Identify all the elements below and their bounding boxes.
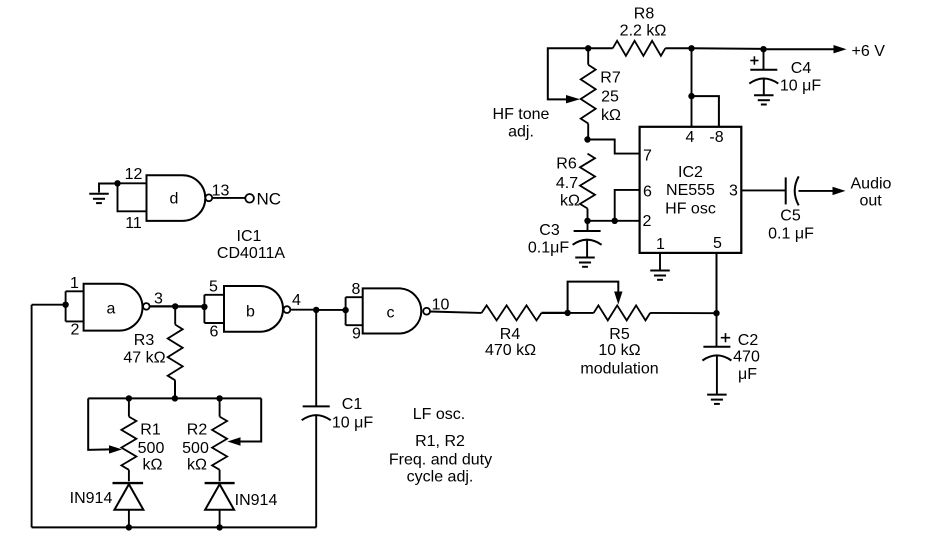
svg-text:2: 2 <box>643 213 652 230</box>
svg-text:NC: NC <box>257 190 282 209</box>
label 4.7 <box>556 175 578 192</box>
NAND gate d (IC1) <box>147 175 206 221</box>
svg-text:C5: C5 <box>780 208 801 225</box>
label 470 k&#937; <box>485 342 536 359</box>
wire node E to C3 <box>587 221 589 231</box>
label R2 <box>187 422 208 439</box>
label NC <box>257 190 282 209</box>
label 25 <box>601 89 619 106</box>
label R5 <box>609 326 630 343</box>
svg-text:modulation: modulation <box>580 361 658 378</box>
pin label 3 (IC2) <box>729 183 738 200</box>
wire node to R5 <box>568 312 594 314</box>
wire C2 to ground <box>716 356 718 395</box>
label IN914 (D1) <box>70 490 113 507</box>
wire node 3 down to R3 <box>174 306 176 324</box>
wire R7 to node D <box>587 124 589 140</box>
input bracket gate c <box>346 297 363 325</box>
pin label 5 (IC2) <box>713 235 722 252</box>
potentiometer R5 <box>594 305 651 320</box>
label 470 (C2) <box>733 349 760 366</box>
svg-text:μF: μF <box>738 366 757 383</box>
ground below C3 <box>575 258 595 267</box>
IC2 NE555 box <box>640 127 742 253</box>
svg-text:Freq. and duty: Freq. and duty <box>389 452 492 469</box>
svg-text:R2: R2 <box>187 422 208 439</box>
label 500 (R1) <box>138 440 165 457</box>
svg-text:+6 V: +6 V <box>852 43 886 60</box>
svg-text:10 kΩ: 10 kΩ <box>598 342 640 359</box>
label CD4011A <box>217 245 286 262</box>
svg-text:0.1 μF: 0.1 μF <box>768 226 814 243</box>
svg-text:cycle adj.: cycle adj. <box>407 469 474 486</box>
svg-text:47 kΩ: 47 kΩ <box>123 350 165 367</box>
wire pin 1 to ground <box>659 253 661 270</box>
wire C3 to ground <box>586 240 588 257</box>
LF top rail <box>88 397 261 399</box>
pin label 1 <box>70 275 79 292</box>
output bubble gate b <box>284 306 291 313</box>
svg-text:IN914: IN914 <box>235 492 278 509</box>
label C1 <box>342 396 363 413</box>
svg-text:R7: R7 <box>600 70 621 87</box>
label &#956;F (C2) <box>738 366 757 383</box>
svg-text:HF tone: HF tone <box>493 106 550 123</box>
svg-text:2: 2 <box>71 322 80 339</box>
svg-text:500: 500 <box>182 440 209 457</box>
ground below C4 <box>754 95 774 104</box>
potentiometer R1 <box>121 417 136 470</box>
svg-text:C1: C1 <box>342 396 363 413</box>
pin label 2 <box>71 322 80 339</box>
svg-text:C3: C3 <box>539 222 560 239</box>
wire node 4 to gate c bracket <box>316 309 345 311</box>
capacitor C5 <box>786 176 799 205</box>
pin label 3 <box>154 291 163 308</box>
capacitor C2 <box>702 347 731 361</box>
pin label 5 <box>209 279 218 296</box>
R7 wiper bracket <box>548 48 588 103</box>
NAND gate c (IC1) <box>363 288 422 333</box>
svg-text:IN914: IN914 <box>70 490 113 507</box>
wire node to C2 <box>716 313 718 347</box>
pin label 9 <box>352 326 361 343</box>
ground at gate d input <box>89 194 109 203</box>
svg-text:7: 7 <box>643 148 652 165</box>
wire node A to R8 <box>588 47 613 49</box>
node gate c input junction <box>342 307 348 313</box>
ground below pin 1 <box>650 271 670 280</box>
label HF tone <box>493 106 550 123</box>
node R3 bottom <box>172 395 178 401</box>
svg-text:5: 5 <box>209 279 218 296</box>
NAND gate b (IC1) <box>224 286 283 332</box>
pin label 4 <box>292 292 301 309</box>
label Audio <box>851 175 892 192</box>
wire node 3 to gate b bracket <box>175 305 204 307</box>
svg-text:6: 6 <box>643 184 652 201</box>
label k&#937; (R6) <box>560 193 580 210</box>
diode D2 IN914 <box>205 483 235 510</box>
wire D2 to bottom rail <box>219 510 221 528</box>
label R4 <box>500 326 521 343</box>
label Freq. and duty <box>389 452 492 469</box>
svg-text:out: out <box>860 192 883 209</box>
capacitor C3 <box>573 231 602 245</box>
svg-text:4: 4 <box>686 129 695 146</box>
node 3 junction (R3 top) <box>172 303 178 309</box>
wire to ground from gate d inputs <box>99 184 118 193</box>
svg-text:470 kΩ: 470 kΩ <box>485 342 536 359</box>
pin label 10 <box>432 297 450 314</box>
svg-text:500: 500 <box>138 440 165 457</box>
svg-text:3: 3 <box>154 291 163 308</box>
wire gate d output to NC <box>212 197 245 199</box>
label R8 <box>634 6 655 23</box>
wire pin 6 path <box>615 190 640 221</box>
label 10 k&#937; <box>598 342 640 359</box>
wire R7 top stub <box>587 48 589 64</box>
wire D1 to bottom rail <box>128 510 130 528</box>
R5 wiper bracket <box>568 282 623 313</box>
resistor R6 <box>580 154 595 209</box>
ground below C2 <box>707 395 727 404</box>
wire R1 stub <box>128 398 130 416</box>
pin label 2 (IC2) <box>643 213 652 230</box>
svg-text:10 μF: 10 μF <box>780 78 821 95</box>
label 0.1&#956;F (C3) <box>528 240 569 257</box>
svg-text:5: 5 <box>713 235 722 252</box>
svg-text:3: 3 <box>729 183 738 200</box>
svg-text:2.2 kΩ: 2.2 kΩ <box>620 23 667 40</box>
node gate b input junction <box>201 304 207 310</box>
svg-text:IC2: IC2 <box>678 164 703 181</box>
input bracket gate a <box>66 291 84 321</box>
wire pin 3 to C5 <box>741 189 785 191</box>
pin label 1 (IC2) <box>656 236 665 253</box>
label C5 <box>780 208 801 225</box>
left vertical rail <box>31 305 33 528</box>
label 0.1 &#956;F (C5) <box>768 226 814 243</box>
wire node to C4 <box>763 49 765 70</box>
wire node B to node C4 <box>692 47 764 50</box>
capacitor C4 <box>749 70 778 84</box>
node C4 top <box>760 46 766 52</box>
svg-text:8: 8 <box>352 281 361 298</box>
wire pin 12 input to gate d <box>118 182 147 184</box>
label IN914 (D2) <box>235 492 278 509</box>
open terminal NC <box>245 194 254 203</box>
output bubble gate c <box>423 308 430 315</box>
svg-text:kΩ: kΩ <box>601 107 621 124</box>
svg-text:NE555: NE555 <box>666 182 715 199</box>
svg-text:kΩ: kΩ <box>560 193 580 210</box>
svg-text:a: a <box>107 301 116 318</box>
svg-text:R4: R4 <box>500 326 521 343</box>
svg-text:25: 25 <box>601 89 619 106</box>
R1 wiper bracket <box>88 398 122 453</box>
wire R6 to node E <box>587 209 589 221</box>
potentiometer R7 <box>581 65 596 124</box>
pin label 4 (IC2) <box>686 129 695 146</box>
svg-text:470: 470 <box>733 349 760 366</box>
wire gate c output to R4 <box>430 312 482 313</box>
wire R1 to D1 <box>128 470 130 482</box>
node B (pins 4-8 feed) <box>688 45 694 51</box>
svg-text:LF osc.: LF osc. <box>413 406 465 423</box>
node A (R7 top) <box>585 45 591 51</box>
label C3 <box>539 222 560 239</box>
wire pin 2 path <box>588 220 640 222</box>
label 10 &#956;F (C4) <box>780 78 821 95</box>
label R1, R2 <box>415 433 465 450</box>
capacitor C1 <box>302 406 331 420</box>
wire left rail from gate a input <box>32 304 66 306</box>
input bracket gate b <box>204 295 224 323</box>
audio out arrow <box>833 187 846 195</box>
pin label 6 <box>210 324 219 341</box>
node R1 top <box>126 395 132 401</box>
label R7 <box>600 70 621 87</box>
node D (R7/R6/pin7) <box>584 136 590 142</box>
svg-text:10 μF: 10 μF <box>332 415 373 432</box>
label adj. <box>508 124 534 141</box>
label C4 <box>791 60 812 77</box>
wire R2 stub <box>219 398 221 416</box>
label cycle adj. <box>407 469 474 486</box>
svg-text:12: 12 <box>125 166 143 183</box>
svg-text:Audio: Audio <box>851 175 892 192</box>
svg-text:-8: -8 <box>709 129 723 146</box>
node D1 bottom <box>126 524 132 530</box>
node 4 junction (C1 top) <box>313 307 319 313</box>
svg-text:R3: R3 <box>134 332 155 349</box>
svg-text:R5: R5 <box>609 326 630 343</box>
potentiometer R2 <box>212 417 227 470</box>
node gate a input junction <box>62 302 68 308</box>
svg-text:R6: R6 <box>556 156 577 173</box>
plus sign C4 <box>750 56 758 64</box>
wire R8 to node B <box>665 47 691 49</box>
wire R2 to D2 <box>219 470 221 482</box>
svg-text:IC1: IC1 <box>237 228 262 245</box>
svg-text:C4: C4 <box>791 60 812 77</box>
svg-text:R8: R8 <box>634 6 655 23</box>
svg-text:R1, R2: R1, R2 <box>415 433 465 450</box>
svg-text:4.7: 4.7 <box>556 175 578 192</box>
svg-text:R1: R1 <box>140 422 161 439</box>
svg-text:CD4011A: CD4011A <box>217 245 286 262</box>
svg-text:d: d <box>170 191 179 208</box>
label k&#937; (R2) <box>187 457 207 474</box>
label 10 &#956;F (C1) <box>332 415 373 432</box>
svg-text:0.1μF: 0.1μF <box>528 240 569 257</box>
wire C5 to arrow <box>799 190 834 192</box>
node R4/R5 junction <box>564 310 570 316</box>
node E (R6/C3/pin2) <box>584 218 590 224</box>
label k&#937; (R1) <box>143 457 163 474</box>
wire gate a output to node 3 <box>150 305 176 307</box>
label R6 <box>556 156 577 173</box>
svg-text:1: 1 <box>70 275 79 292</box>
node R2 top <box>216 395 222 401</box>
pin label 8 <box>352 281 361 298</box>
wire pin 4 feed <box>691 48 693 127</box>
svg-text:adj.: adj. <box>508 124 534 141</box>
label R3 <box>134 332 155 349</box>
bottom rail <box>32 526 317 528</box>
node junction gate d inputs <box>114 180 120 186</box>
wire pin 7 path <box>588 140 640 154</box>
node C2 top <box>713 310 719 316</box>
NAND gate a (IC1) <box>84 284 143 331</box>
label modulation <box>580 361 658 378</box>
wire pin 8 feed <box>692 96 719 127</box>
pin label 12 <box>125 166 143 183</box>
svg-text:4: 4 <box>292 292 301 309</box>
wire node 4 down to C1 <box>315 310 317 407</box>
pin label 11 <box>125 215 142 232</box>
svg-text:kΩ: kΩ <box>143 457 163 474</box>
label +6 V <box>852 43 886 60</box>
wire pin 5 down to node <box>716 253 718 313</box>
node pin6 junction <box>612 218 618 224</box>
pin label 13 <box>212 183 230 200</box>
label out <box>860 192 883 209</box>
svg-text:HF osc: HF osc <box>665 201 716 218</box>
label k&#937; (R7) <box>601 107 621 124</box>
pin label 8 (IC2) <box>709 129 723 146</box>
wire +6V with arrow <box>764 45 847 53</box>
svg-text:6: 6 <box>210 324 219 341</box>
label LF osc. <box>413 406 465 423</box>
label C2 <box>738 332 759 349</box>
resistor R3 <box>168 325 183 381</box>
svg-text:kΩ: kΩ <box>187 457 207 474</box>
node D2 bottom <box>216 524 222 530</box>
label R1 <box>140 422 161 439</box>
resistor R4 <box>482 305 542 320</box>
label IC1 <box>237 228 262 245</box>
output bubble gate a <box>143 303 150 310</box>
wire R5 to node C2 <box>650 312 716 314</box>
wire C1 to bottom rail <box>315 415 317 527</box>
wire pin 11 input loop of gate d <box>118 183 147 211</box>
pin label 6 (IC2) <box>643 184 652 201</box>
resistor R8 <box>613 41 666 56</box>
output bubble gate d <box>205 194 212 201</box>
wire R4 to node <box>542 312 568 314</box>
diode D1 IN914 <box>113 483 144 510</box>
node pins 4-8 junction <box>688 93 694 99</box>
svg-text:c: c <box>387 305 395 322</box>
wire gate b output to node 4 <box>290 309 316 311</box>
svg-text:1: 1 <box>656 236 665 253</box>
R2 wiper bracket <box>228 398 262 445</box>
svg-text:C2: C2 <box>738 332 759 349</box>
label 500 (R2) <box>182 440 209 457</box>
label 2.2 k&#937; <box>620 23 667 40</box>
wire C4 to ground <box>763 79 765 95</box>
pin label 7 <box>643 148 652 165</box>
wire R3 to LF rail <box>174 380 176 398</box>
svg-text:9: 9 <box>352 326 361 343</box>
svg-text:11: 11 <box>125 215 142 232</box>
label 47 k&#937; <box>123 350 165 367</box>
plus sign C2 <box>721 333 730 342</box>
svg-text:b: b <box>246 304 255 321</box>
